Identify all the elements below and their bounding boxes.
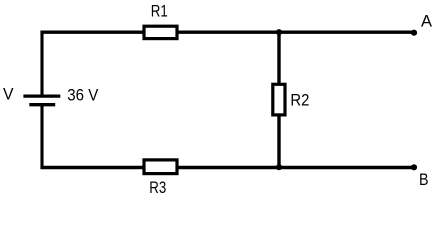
wire: R2 lower lead <box>277 115 280 168</box>
battery V top plate <box>23 94 60 97</box>
wire: bottom horizontal, R3 to terminal B <box>177 166 415 169</box>
battery V bottom plate <box>29 103 55 106</box>
wire: left vertical upper segment (source top lead) <box>40 31 43 96</box>
svg-text:V: V <box>3 85 14 104</box>
resistor R3 <box>144 160 177 174</box>
svg-text:B: B <box>419 170 429 189</box>
terminal A dot <box>411 30 417 36</box>
wire: left vertical lower segment (source bottom lead) <box>40 105 43 169</box>
wire: R2 upper lead <box>277 32 280 85</box>
svg-text:R1: R1 <box>151 2 168 21</box>
junction: top node of R2 branch <box>276 29 282 35</box>
svg-text:R2: R2 <box>290 91 309 110</box>
svg-text:A: A <box>421 11 433 30</box>
wire: top horizontal, R1 to terminal A <box>177 31 415 34</box>
terminal B dot <box>411 164 417 170</box>
wire: top horizontal, corner to R1 <box>40 31 145 34</box>
svg-text:36 V: 36 V <box>67 85 99 104</box>
junction: bottom node of R2 branch <box>276 164 282 170</box>
svg-text:R3: R3 <box>149 178 166 195</box>
wire: bottom horizontal, corner to R3 <box>40 166 145 169</box>
resistor R1 <box>144 26 177 38</box>
resistor R2 <box>273 84 285 115</box>
